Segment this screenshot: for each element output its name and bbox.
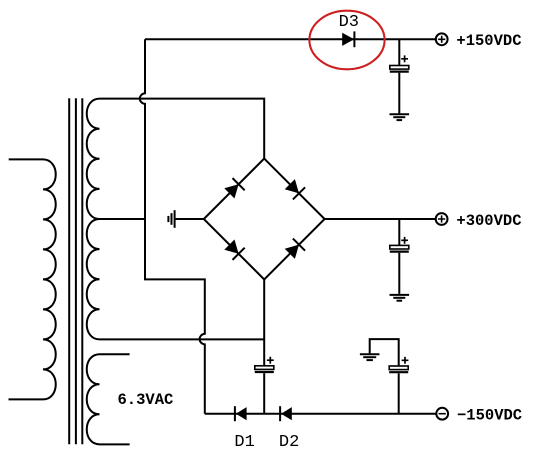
bridge diode bottom-right bbox=[285, 239, 305, 259]
capacitor C3 bbox=[255, 357, 274, 414]
diode D3 bbox=[342, 31, 354, 47]
transformer primary winding bbox=[9, 159, 56, 399]
wire left vertical drop with hop over secondary lead bbox=[140, 39, 205, 413]
wire secondary bottom lead to bridge bottom drop bbox=[100, 338, 265, 340]
ground under C1 bbox=[390, 114, 410, 120]
wire ground to bridge left vertex bbox=[175, 218, 204, 220]
terminal -150VDC bbox=[436, 408, 448, 420]
bridge diode top-right bbox=[285, 179, 305, 199]
svg-text:D1: D1 bbox=[234, 433, 254, 452]
bridge rectifier diamond bbox=[204, 159, 325, 280]
capacitor C2 at +300VDC bbox=[390, 219, 409, 294]
svg-text:+300VDC: +300VDC bbox=[456, 212, 521, 230]
svg-text:D2: D2 bbox=[279, 433, 299, 452]
wire bottom rail bbox=[205, 413, 436, 415]
transformer 6.3VAC winding bbox=[87, 354, 130, 444]
svg-text:D3: D3 bbox=[339, 13, 359, 32]
diode D1 bbox=[235, 406, 247, 421]
ground left of bridge bbox=[168, 210, 174, 228]
diode D2 bbox=[280, 406, 292, 421]
svg-text:+150VDC: +150VDC bbox=[456, 32, 521, 50]
transformer HV secondary winding bbox=[87, 99, 100, 340]
terminal +150VDC bbox=[436, 33, 448, 45]
bridge diode top-left bbox=[224, 178, 244, 198]
wire secondary top lead to bridge top bbox=[100, 99, 265, 159]
wire top rail from left drop to +150VDC terminal bbox=[145, 38, 436, 40]
bridge diode bottom-left bbox=[224, 240, 244, 260]
wire bridge right vertex to +300VDC terminal bbox=[325, 218, 436, 220]
ground under C2 bbox=[390, 295, 410, 301]
svg-text:6.3VAC: 6.3VAC bbox=[118, 391, 174, 409]
wire bridge bottom vertex down to C3 bbox=[263, 279, 265, 365]
svg-text:−150VDC: −150VDC bbox=[457, 407, 522, 425]
terminal +300VDC bbox=[436, 213, 448, 225]
capacitor C1 at +150VDC bbox=[390, 39, 409, 113]
wire secondary center tap to vertical drop bbox=[100, 218, 146, 220]
red highlight ellipse around D3 bbox=[309, 11, 384, 70]
capacitor C4 at -150VDC bbox=[370, 339, 409, 414]
ground at C4 positive side bbox=[360, 354, 380, 360]
transformer core bbox=[69, 98, 82, 444]
